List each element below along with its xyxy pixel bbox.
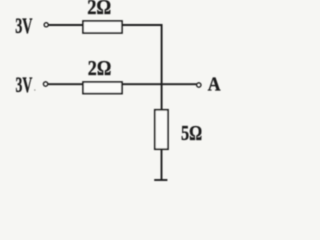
wire bottom (R3 to ground): [161, 149, 163, 180]
terminal circle (top source): [44, 23, 48, 27]
svg-text:3V: 3V: [16, 72, 33, 97]
ground bar: [154, 179, 167, 181]
resistor R2 2ohm (middle): [83, 82, 122, 94]
wire top-right (R1 to vertical bus): [122, 25, 162, 110]
resistor R3 5ohm (vertical): [155, 110, 168, 149]
wire mid-left (terminal to R2): [48, 83, 83, 85]
svg-text:A: A: [208, 73, 221, 95]
svg-text:3V: 3V: [15, 13, 32, 38]
terminal circle (middle source): [43, 82, 47, 86]
svg-text:2Ω: 2Ω: [88, 56, 112, 80]
wire mid-right (R2 to node A, crossing vertical bus): [122, 83, 196, 85]
wire top-left (terminal to R1): [49, 24, 83, 26]
svg-text:5Ω: 5Ω: [181, 121, 202, 145]
svg-text:2Ω: 2Ω: [87, 0, 111, 19]
scan dot after middle 3V: [34, 89, 36, 91]
terminal circle node A: [197, 83, 201, 87]
resistor R1 2ohm (top): [83, 21, 122, 33]
